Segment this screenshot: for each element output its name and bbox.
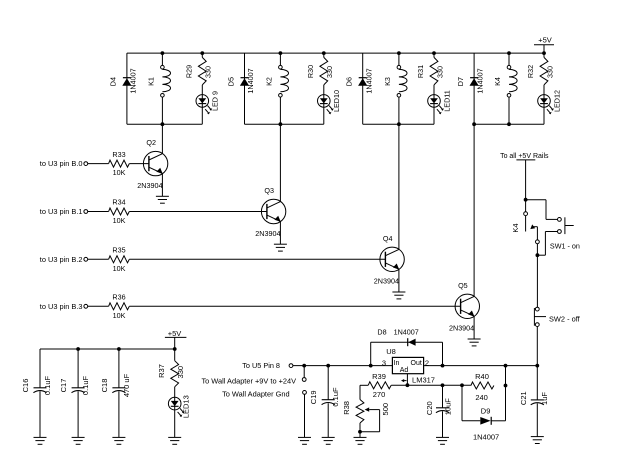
transistor Q3 2N3904 <box>261 199 285 223</box>
node to U3 pin B.2 <box>40 255 88 264</box>
svg-text:C19: C19 <box>309 390 318 404</box>
svg-text:R38: R38 <box>342 401 351 415</box>
resistor R35 10K <box>109 256 130 263</box>
wire base row 2 <box>129 258 385 260</box>
svg-text:To all +5V Rails: To all +5V Rails <box>500 153 549 160</box>
junction R29 top <box>200 51 204 55</box>
svg-text:330: 330 <box>435 66 444 78</box>
transistor Q2 2N3904 <box>143 151 167 175</box>
ground C20 <box>436 437 449 444</box>
svg-text:LED13: LED13 <box>182 395 191 418</box>
svg-text:D9: D9 <box>481 407 491 416</box>
LED LED11 <box>428 95 444 115</box>
junction C20 tap on adj line <box>441 383 445 387</box>
wire emitter Q4 <box>398 269 400 292</box>
wire SW1 return <box>537 232 557 256</box>
resistor R31 330 <box>430 57 438 85</box>
wire R31-LED branch vertical <box>433 53 435 57</box>
wire cap bank rail <box>40 348 175 350</box>
svg-text:330: 330 <box>176 366 185 379</box>
svg-text:LED 9: LED 9 <box>211 91 220 111</box>
svg-text:Q5: Q5 <box>458 281 468 290</box>
svg-text:LED12: LED12 <box>552 90 561 112</box>
svg-text:K4: K4 <box>511 223 520 232</box>
diode D4 1N4007 <box>122 78 131 86</box>
wire input row 3 <box>88 305 109 307</box>
svg-text:R37: R37 <box>157 364 166 378</box>
junction K4 contact top <box>524 198 528 202</box>
wire input row 0 <box>88 163 109 165</box>
junction K3 bottom rail <box>397 122 401 126</box>
node to U3 pin B.0 <box>40 159 88 168</box>
wire section 1 bottom rail <box>127 123 202 125</box>
wire K1 coil leads <box>161 53 163 65</box>
svg-text:10K: 10K <box>113 264 126 273</box>
junction K1 bottom rail <box>161 122 165 126</box>
diode D8 1N4007 <box>408 338 416 346</box>
svg-text:to U3 pin B.3: to U3 pin B.3 <box>40 302 83 311</box>
svg-text:Q2: Q2 <box>146 138 156 147</box>
svg-text:R39: R39 <box>372 372 386 381</box>
svg-text:470 uF: 470 uF <box>122 373 131 397</box>
wire emitter Q3 <box>279 221 281 244</box>
capacitor C20 10uF <box>436 385 449 437</box>
svg-text:R32: R32 <box>526 65 535 78</box>
junction adj node <box>406 383 410 387</box>
adj pin arrow <box>401 379 407 382</box>
diode D6 1N4007 <box>358 78 367 86</box>
LED LED 9 <box>196 95 212 115</box>
transistor Q4 2N3904 <box>380 247 404 271</box>
svg-text:LM317: LM317 <box>412 376 435 385</box>
svg-text:500: 500 <box>381 403 390 416</box>
wire SW2 to output rail <box>536 326 538 365</box>
wire D5 branch vertical <box>244 53 246 124</box>
svg-text:D4: D4 <box>109 77 118 86</box>
junction R40 right <box>504 384 508 388</box>
svg-text:C21: C21 <box>519 391 528 405</box>
svg-text:10K: 10K <box>113 311 126 320</box>
resistor R37 330 <box>171 361 179 387</box>
svg-text:2N3904: 2N3904 <box>449 324 474 333</box>
svg-text:SW2 - off: SW2 - off <box>549 314 581 323</box>
node to U3 pin B.1 <box>40 207 88 216</box>
svg-text:LED11: LED11 <box>442 90 451 111</box>
junction SW1/K4 output <box>536 253 540 257</box>
svg-text:K2: K2 <box>264 77 273 86</box>
wire base row 3 <box>129 305 460 307</box>
svg-text:+5V: +5V <box>168 329 182 338</box>
switch SW2 pushbutton NC <box>534 307 546 326</box>
ground C19 <box>322 437 335 444</box>
wire D6 branch vertical <box>362 53 364 124</box>
svg-text:330: 330 <box>545 66 554 78</box>
svg-text:1N4007: 1N4007 <box>364 68 373 93</box>
diode D9 1N4007 <box>480 417 491 425</box>
svg-text:R36: R36 <box>112 293 125 302</box>
svg-text:D5: D5 <box>226 77 235 86</box>
ground wall adapter <box>298 437 311 444</box>
junction D8 left <box>369 364 373 368</box>
svg-text:C20: C20 <box>425 401 434 415</box>
wire section 2 bottom rail <box>245 123 324 125</box>
capacitor C18 470 uF <box>112 349 125 437</box>
capacitor C17 0.1uF <box>72 349 85 437</box>
wire D9 loop <box>462 366 506 421</box>
wire R37 to LED13 <box>174 387 176 438</box>
svg-text:2N3904: 2N3904 <box>137 181 162 190</box>
LED LED10 <box>318 95 334 115</box>
svg-text:to U3 pin B.0: to U3 pin B.0 <box>40 159 83 168</box>
wire emitter Q2 <box>161 174 163 197</box>
junction D9 branch left <box>460 383 464 387</box>
wire K2 coil leads <box>279 53 281 65</box>
junction K3 top <box>397 51 401 55</box>
op-amp regulator U8 LM317 box <box>392 357 423 373</box>
wire K4 coil leads <box>508 53 510 65</box>
svg-text:C18: C18 <box>100 379 109 393</box>
svg-text:To Wall Adapter Gnd: To Wall Adapter Gnd <box>222 389 290 398</box>
junction K2 top <box>279 51 283 55</box>
svg-text:In: In <box>394 360 400 367</box>
svg-text:R34: R34 <box>112 198 125 207</box>
svg-text:+5V: +5V <box>538 36 552 45</box>
svg-text:1N4007: 1N4007 <box>473 433 499 442</box>
svg-text:U8: U8 <box>386 347 396 356</box>
svg-text:to U3 pin B.2: to U3 pin B.2 <box>40 255 83 264</box>
relay coil K3 <box>397 65 407 97</box>
svg-text:D7: D7 <box>456 77 465 86</box>
junction R38 bottom <box>358 430 362 434</box>
junction R32 top <box>542 51 546 55</box>
node To all +5V Rails <box>500 153 549 160</box>
svg-text:To U5 Pin 8: To U5 Pin 8 <box>242 361 280 370</box>
ground C21 <box>531 437 544 444</box>
transistor Q5 2N3904 <box>455 294 479 318</box>
relay coil K1 <box>161 65 171 97</box>
ground below Q4 <box>392 292 405 299</box>
node to U3 pin B.3 <box>40 302 88 311</box>
svg-text:LED10: LED10 <box>332 90 341 112</box>
wire collector riser Q2 <box>161 124 163 154</box>
svg-text:R35: R35 <box>112 246 125 255</box>
junction output rail at C21 <box>535 364 539 368</box>
svg-text:K4: K4 <box>493 77 502 86</box>
wire input row 2 <box>88 258 109 260</box>
svg-text:D8: D8 <box>377 327 386 336</box>
node To Wall Adapter +9V to +24V <box>201 366 306 386</box>
diode D7 1N4007 <box>470 78 479 86</box>
junction K4 top <box>507 51 511 55</box>
svg-text:R33: R33 <box>112 150 125 159</box>
svg-text:0.1uF: 0.1uF <box>331 387 340 407</box>
svg-text:0.1uF: 0.1uF <box>81 375 90 395</box>
wire U8 adj pin <box>406 374 408 386</box>
wire input rail left <box>293 365 393 367</box>
resistor R36 10K <box>109 303 130 310</box>
relay contact K4 <box>524 212 540 244</box>
junction D8 right <box>441 364 445 368</box>
capacitor C21 1uF <box>531 366 544 437</box>
wire +5V rails feed vertical <box>525 160 527 212</box>
junction C19 top <box>326 364 330 368</box>
resistor R39 270 <box>368 382 391 389</box>
capacitor C19 0.1uF <box>322 366 335 438</box>
junction R37 top <box>173 347 177 351</box>
ground below Q3 <box>274 244 287 251</box>
wire section 4 bottom rail <box>474 123 544 125</box>
svg-text:C17: C17 <box>59 379 68 393</box>
ground below Q5 <box>468 339 481 346</box>
wire collector riser Q3 <box>279 124 281 201</box>
wire branch to SW1 top <box>526 200 558 220</box>
ground C18 <box>112 437 125 444</box>
resistor R33 10K <box>109 160 130 167</box>
svg-text:R31: R31 <box>416 65 425 78</box>
resistor R34 10K <box>109 208 130 215</box>
svg-text:10uF: 10uF <box>444 398 453 416</box>
svg-text:10K: 10K <box>113 168 126 177</box>
svg-text:D6: D6 <box>345 77 354 86</box>
svg-text:1N4007: 1N4007 <box>394 327 419 336</box>
svg-text:Q3: Q3 <box>264 186 274 195</box>
wire R32-LED branch vertical <box>543 53 545 57</box>
junction K2 bottom rail <box>279 122 283 126</box>
svg-text:1N4007: 1N4007 <box>476 68 485 93</box>
potentiometer R38 500 <box>356 400 380 438</box>
diode D5 1N4007 <box>240 78 249 86</box>
switch SW1 pushbutton <box>558 217 574 234</box>
ground LED13 <box>168 437 181 444</box>
ground below Q2 <box>156 196 169 203</box>
wire R39 left to R38 <box>360 385 368 399</box>
wire adj line <box>391 384 471 386</box>
resistor R30 330 <box>320 57 328 85</box>
junction output rail at R40 riser <box>504 364 508 368</box>
svg-text:R30: R30 <box>306 65 315 78</box>
ground R38 <box>354 437 367 444</box>
junction wall adapter +V tap <box>302 364 306 368</box>
svg-text:to U3 pin B.1: to U3 pin B.1 <box>40 207 83 216</box>
LED LED13 <box>168 397 184 417</box>
svg-text:C16: C16 <box>21 379 30 393</box>
resistor R40 240 <box>471 382 494 389</box>
svg-text:330: 330 <box>204 66 213 78</box>
junction C18 top <box>117 347 121 351</box>
ground C16 <box>34 437 47 444</box>
junction C17 top <box>76 347 80 351</box>
junction R31 top <box>432 51 436 55</box>
wire down to SW2 <box>536 255 538 307</box>
svg-text:270: 270 <box>373 390 386 399</box>
power +5V top right <box>534 36 554 54</box>
resistor R32 330 <box>540 57 548 85</box>
svg-text:0.1uF: 0.1uF <box>43 375 52 395</box>
wire D8 bypass loop <box>371 342 443 365</box>
relay coil K2 <box>279 65 289 97</box>
wire emitter Q5 <box>473 316 475 339</box>
svg-text:1N4007: 1N4007 <box>129 68 138 93</box>
wire K3 coil leads <box>398 53 400 65</box>
svg-text:K1: K1 <box>146 77 155 86</box>
wire output rail right <box>424 365 538 367</box>
wire input row 1 <box>88 211 109 213</box>
wire K4 contact to junction <box>536 244 538 256</box>
node To Wall Adapter Gnd <box>222 389 306 437</box>
capacitor C16 0.1uF <box>33 349 46 437</box>
wire base row 0 <box>129 163 149 165</box>
wire base row 1 <box>129 211 267 213</box>
wire R30-LED branch vertical <box>323 53 325 57</box>
junction K1 top <box>161 51 165 55</box>
wire R29-LED branch vertical <box>201 53 203 57</box>
svg-text:R40: R40 <box>475 372 489 381</box>
svg-text:2N3904: 2N3904 <box>374 277 399 286</box>
node To U5 Pin 8 <box>242 361 293 370</box>
svg-text:To Wall Adapter +9V to +24V: To Wall Adapter +9V to +24V <box>201 377 296 386</box>
LED LED12 <box>538 95 554 115</box>
wire +5V top rail <box>127 52 544 54</box>
svg-text:2N3904: 2N3904 <box>255 229 280 238</box>
junction R30 top <box>322 51 326 55</box>
svg-text:Out: Out <box>411 360 422 367</box>
svg-text:SW1 - on: SW1 - on <box>550 241 580 250</box>
wire collector riser Q4 <box>398 124 400 249</box>
wire D7 branch vertical <box>473 53 475 124</box>
svg-text:Q4: Q4 <box>383 234 393 243</box>
svg-text:Ad: Ad <box>400 367 409 374</box>
svg-text:R29: R29 <box>184 65 193 78</box>
svg-text:330: 330 <box>325 66 334 78</box>
svg-text:1N4007: 1N4007 <box>246 68 255 93</box>
wire section 3 bottom rail <box>363 123 434 125</box>
power +5V bottom left <box>165 329 187 349</box>
junction K4 bottom rail <box>472 122 476 126</box>
svg-text:240: 240 <box>475 393 488 402</box>
ground C17 <box>72 437 85 444</box>
relay coil K4 <box>507 65 517 97</box>
svg-text:1uF: 1uF <box>540 392 549 405</box>
svg-text:10K: 10K <box>113 216 126 225</box>
resistor R29 330 <box>198 57 206 85</box>
wire R37 branch <box>174 349 176 361</box>
svg-text:3: 3 <box>382 358 386 367</box>
svg-text:K3: K3 <box>383 77 392 86</box>
wire D4 branch vertical <box>126 53 128 124</box>
wire collector riser Q5 <box>473 124 475 296</box>
